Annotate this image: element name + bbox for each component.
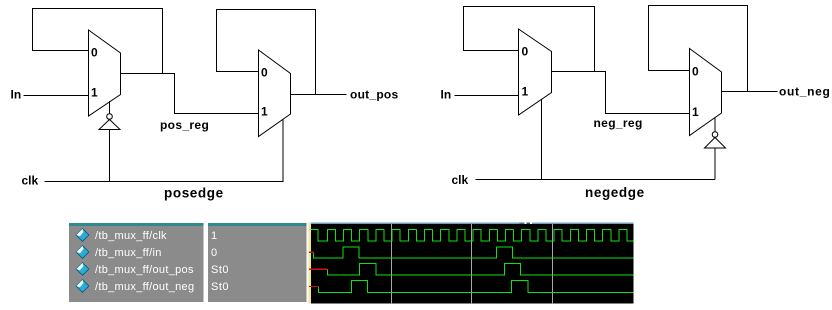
inverter triangle on U4 select (705, 138, 726, 149)
svg-text:1: 1 (211, 230, 217, 242)
gridlines (392, 224, 553, 304)
svg-text:In: In (11, 88, 22, 102)
signal icon clk (76, 228, 90, 242)
trace out_neg (319, 280, 634, 292)
svg-text:out_pos: out_pos (350, 88, 398, 102)
wire: clk line (45, 120, 284, 182)
waveform traces (311, 229, 634, 292)
svg-text:0: 0 (692, 65, 699, 79)
wire: mux3 select to clk (541, 100, 543, 180)
wire: feedback loop mux2 out to mux2 0-input (217, 10, 316, 95)
trace in (314, 247, 634, 258)
svg-text:1: 1 (261, 105, 268, 119)
inverter triangle on U1 select (99, 120, 120, 130)
svg-text:/tb_mux_ff/out_pos: /tb_mux_ff/out_pos (95, 264, 194, 276)
mux U2 (posedge second mux) (259, 50, 291, 137)
svg-text:0: 0 (261, 66, 268, 80)
wire: mux1 output to pos_reg to mux2 pin 1 (121, 74, 259, 114)
wire: mux2 output to out_pos (291, 94, 347, 96)
svg-text:0: 0 (91, 46, 98, 60)
X segment out_pos (309, 268, 327, 270)
X segment out_neg (309, 286, 319, 288)
wire: mux1 select through inverter to clk (109, 101, 111, 182)
light blue top line of wave area (311, 222, 634, 224)
red X segments (309, 252, 327, 286)
teal top border names panel (69, 223, 204, 226)
svg-text:0: 0 (211, 247, 217, 259)
svg-text:/tb_mux_ff/clk: /tb_mux_ff/clk (95, 230, 167, 242)
mux U4 (negedge second mux) (690, 49, 722, 136)
mux U3 (negedge first mux) (519, 29, 552, 115)
inverter bubble on U1 select (107, 114, 113, 120)
signal icon in (76, 245, 90, 259)
teal top border values panel (208, 223, 307, 226)
cursor yellow bar (309, 223, 312, 304)
signal icons and names (76, 228, 230, 293)
signal icon out_pos (76, 262, 90, 276)
wire: feedback loop mux4 out to mux4 0-input (649, 6, 748, 92)
svg-text:posedge: posedge (164, 186, 224, 201)
svg-text:0: 0 (522, 45, 529, 59)
names panel background (69, 223, 204, 302)
svg-text:St0: St0 (211, 264, 229, 276)
wire: mux4 output to out_neg (722, 91, 778, 93)
X segment in (309, 251, 314, 253)
svg-text:1: 1 (692, 105, 699, 119)
wire: feedback loop top (mux3 out to 0-input) (464, 7, 595, 72)
mux U1 (posedge first mux) (89, 30, 121, 116)
trace out_pos (327, 263, 633, 275)
inverter bubble on U4 select (712, 132, 718, 138)
trace clk (311, 229, 634, 241)
scroll handle marks on blue line (520, 222, 525, 224)
wire: mux3 output to neg_reg to mux4 pin 1 (552, 72, 690, 114)
svg-text:clk: clk (22, 174, 39, 188)
svg-text:1: 1 (522, 85, 529, 99)
svg-text:clk: clk (452, 173, 469, 187)
signal icon out_neg (76, 279, 90, 293)
wire: mux4 select through inverter to clk (714, 118, 716, 180)
svg-text:/tb_mux_ff/out_neg: /tb_mux_ff/out_neg (95, 281, 194, 293)
svg-text:negedge: negedge (585, 185, 645, 200)
svg-text:St0: St0 (211, 281, 229, 293)
wire: feedback loop top (mux1 out to 0-input) (33, 9, 163, 74)
svg-text:neg_reg: neg_reg (594, 116, 643, 130)
svg-text:out_neg: out_neg (779, 85, 831, 99)
svg-text:1: 1 (91, 86, 98, 100)
svg-text:pos_reg: pos_reg (160, 118, 209, 132)
wire: clk line (476, 179, 716, 181)
values panel background (208, 223, 307, 302)
svg-text:/tb_mux_ff/in: /tb_mux_ff/in (95, 247, 162, 259)
wave area black background (311, 223, 634, 304)
wire: In input to mux3 pin 1 (455, 95, 519, 97)
svg-text:In: In (441, 88, 452, 102)
wire: In input to mux1 pin 1 (24, 95, 89, 97)
